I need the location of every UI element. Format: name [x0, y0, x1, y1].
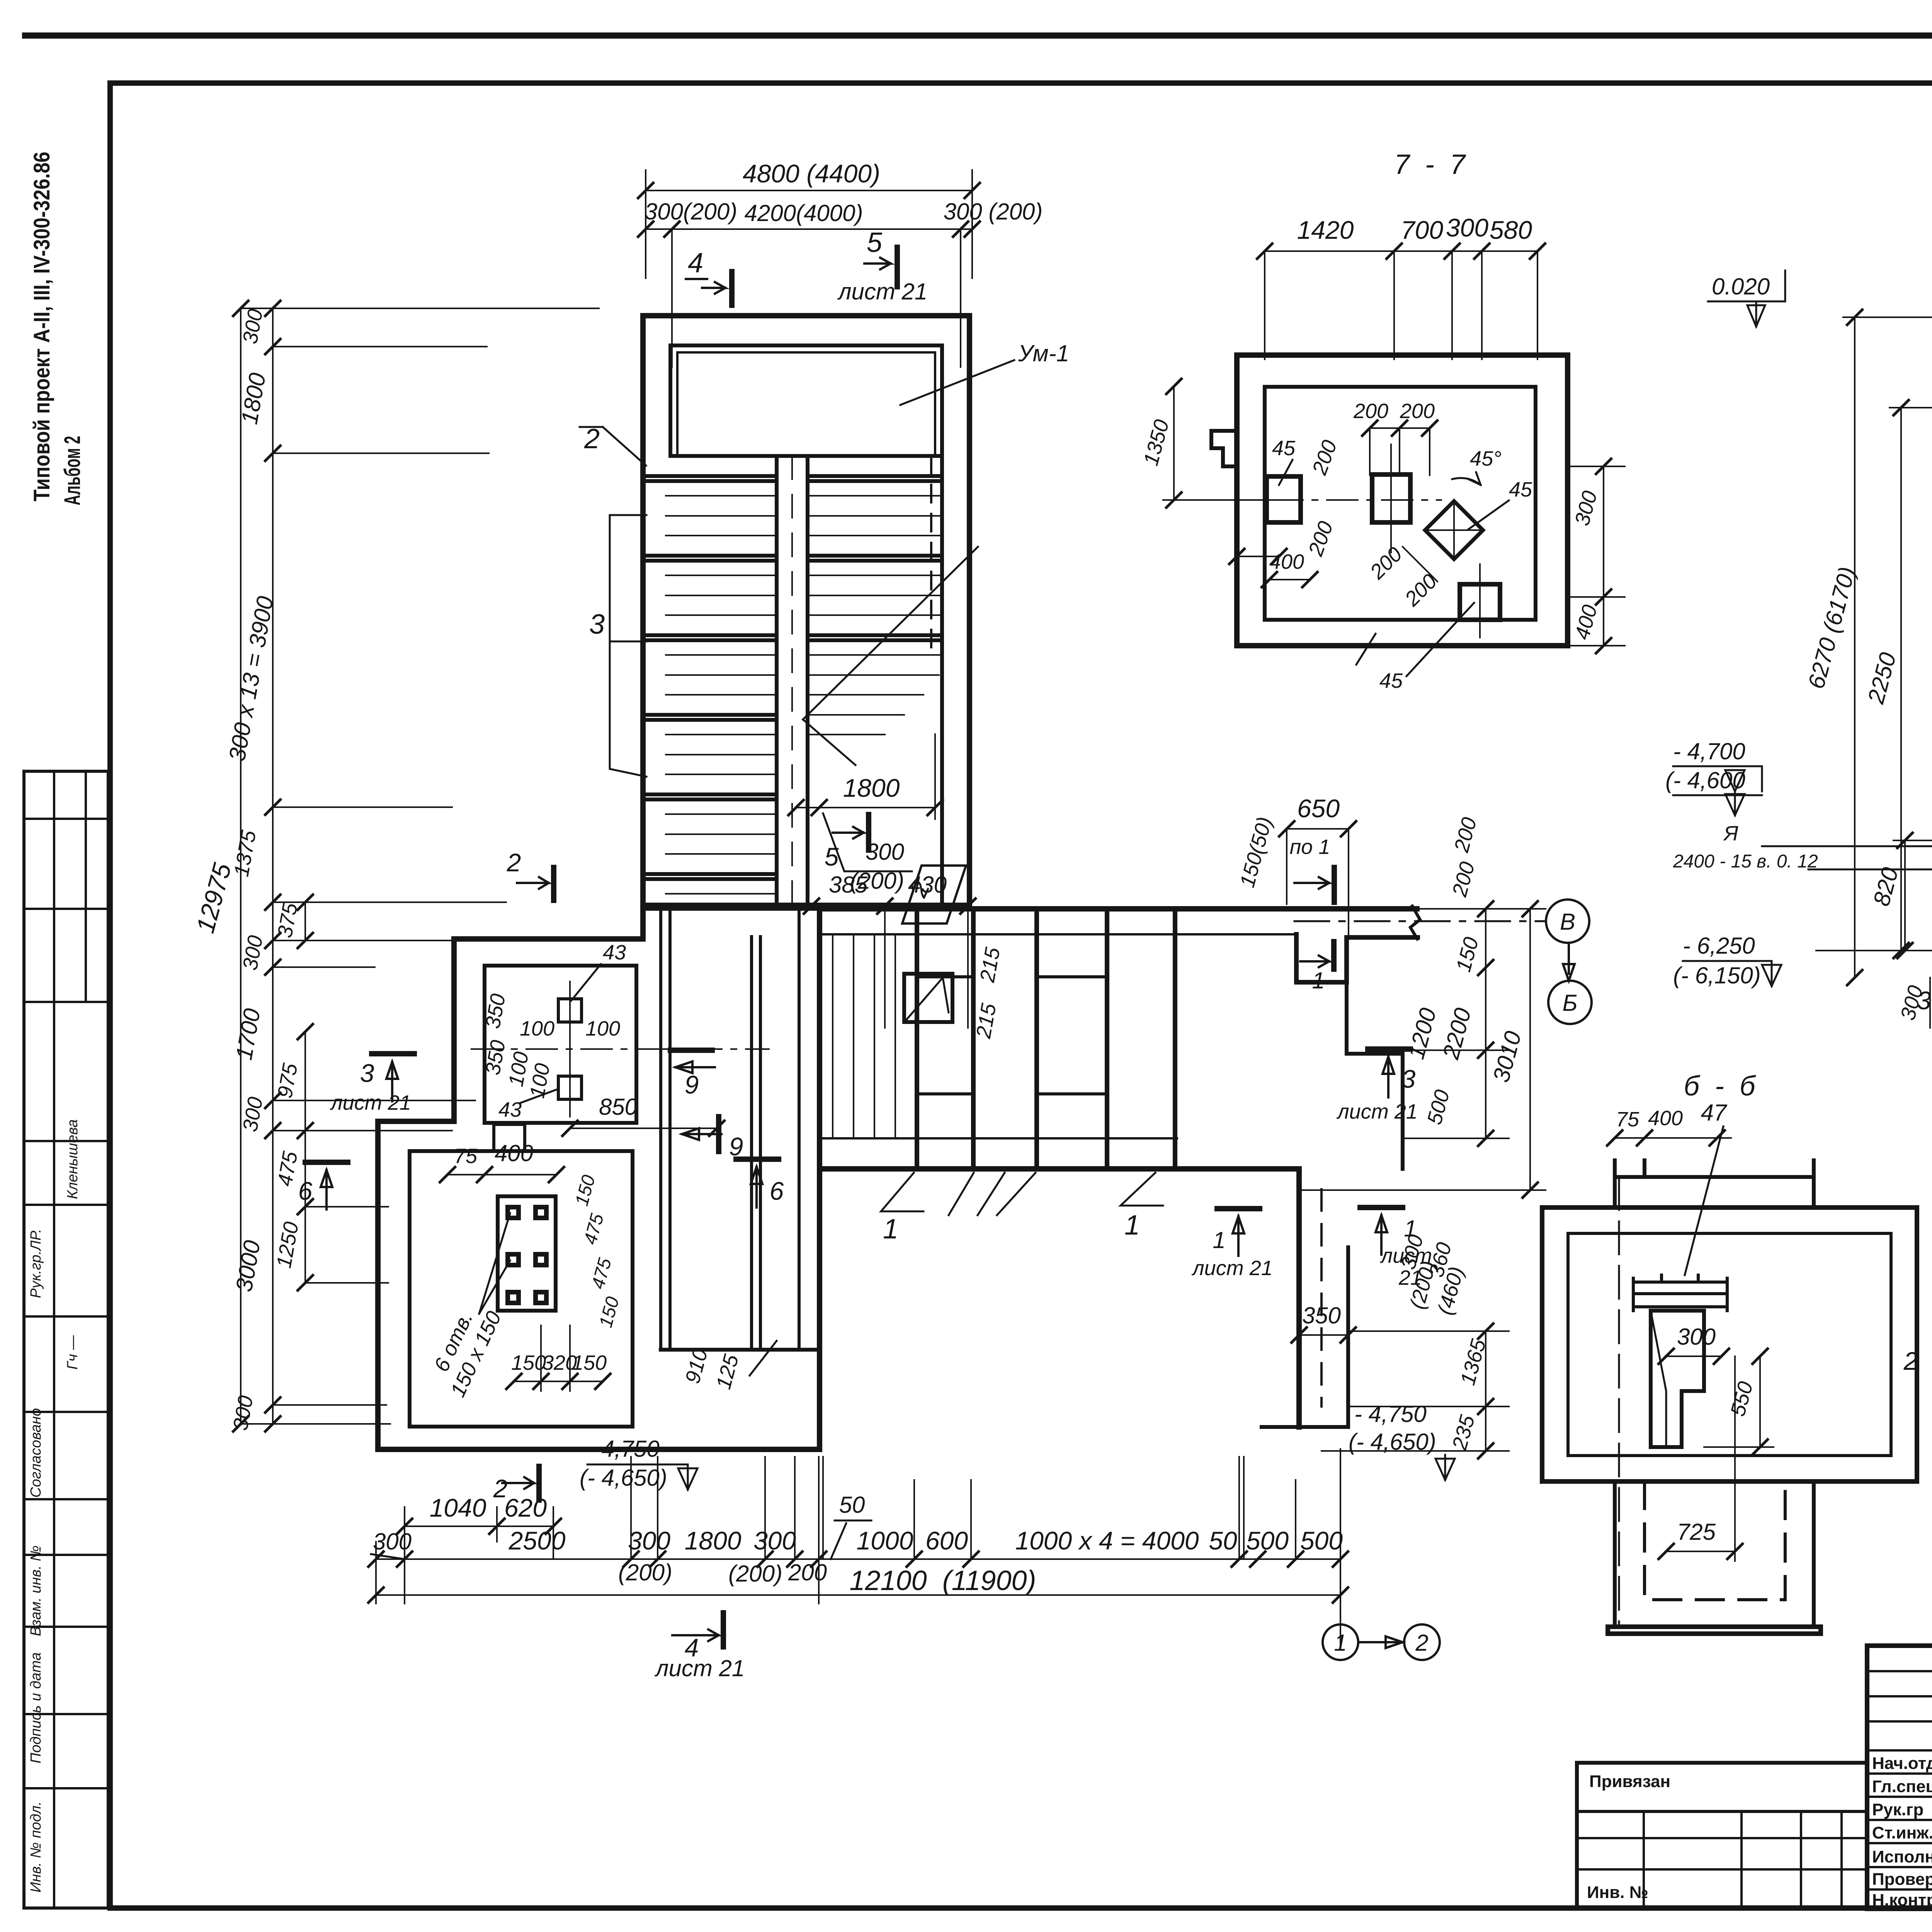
svg-text:45: 45: [1272, 437, 1296, 460]
svg-text:600: 600: [925, 1526, 968, 1555]
section 6 flag (left): [305, 1160, 348, 1165]
svg-text:Инв. № подл.: Инв. № подл.: [28, 1801, 44, 1893]
corridor top inner line: [820, 933, 1296, 935]
section 1 flag near corridor end: [1300, 956, 1329, 967]
svg-text:4200(4000): 4200(4000): [745, 200, 863, 226]
svg-text:2500: 2500: [509, 1526, 566, 1555]
svg-text:4: 4: [688, 248, 703, 279]
right flight bands: [808, 476, 942, 640]
svg-text:1: 1: [1334, 1630, 1347, 1656]
svg-text:2: 2: [1903, 1347, 1918, 1375]
svg-text:- 4,700: - 4,700: [1673, 738, 1745, 764]
svg-text:Ст.инж.: Ст.инж.: [1872, 1823, 1932, 1842]
svg-text:1000: 1000: [857, 1526, 913, 1555]
axis circle Б: [1548, 981, 1592, 1024]
svg-text:Н.контр.: Н.контр.: [1872, 1891, 1932, 1910]
svg-text:Б: Б: [1562, 990, 1577, 1016]
svg-text:3: 3: [1401, 1065, 1416, 1093]
6-6 outer box: [1542, 1207, 1917, 1481]
svg-text:6: 6: [298, 1177, 313, 1205]
svg-text:1040: 1040: [430, 1493, 486, 1522]
panel leaders 1: [881, 1173, 1036, 1215]
corridor wall west: [659, 910, 662, 1350]
svg-text:725: 725: [1677, 1519, 1716, 1545]
svg-text:Гл.спец.: Гл.спец.: [1872, 1777, 1932, 1796]
staircase seg dim line: [646, 228, 972, 230]
sheet top edge line: [25, 32, 1932, 39]
svg-text:350: 350: [1302, 1303, 1341, 1328]
axis circles 1 2: [1323, 1624, 1358, 1660]
titleblock outer: [1867, 1646, 1932, 1909]
svg-text:4800 (4400): 4800 (4400): [743, 159, 880, 188]
7-7 diamond square: [1425, 501, 1483, 559]
corridor top wall: [820, 906, 1417, 912]
svg-text:лист 21: лист 21: [837, 279, 928, 304]
6-6 inner box: [1568, 1233, 1891, 1456]
svg-text:300: 300: [1917, 986, 1932, 1015]
machine block outer wall bottom: [378, 1447, 820, 1452]
7-7 dim 400 bottom left: [1237, 556, 1279, 557]
embedded plate: [498, 1196, 556, 1311]
svg-text:лист 21: лист 21: [655, 1655, 745, 1681]
left flight treads: [666, 496, 777, 894]
signature labels: [1872, 1754, 1932, 1910]
svg-text:300 (200): 300 (200): [944, 199, 1043, 224]
svg-text:Рук.гр: Рук.гр: [1872, 1800, 1923, 1819]
svg-text:500: 500: [1246, 1526, 1289, 1555]
corridor panel joints: [915, 909, 919, 1169]
central stair wall: [775, 456, 779, 905]
svg-text:7 - 7: 7 - 7: [1394, 149, 1466, 180]
7-7 leader 45 bottom: [1356, 634, 1376, 665]
wall corner to machine block: [454, 936, 643, 942]
lower flight treads in corridor: [833, 934, 895, 1138]
svg-text:2: 2: [507, 848, 521, 877]
svg-text:150: 150: [572, 1351, 607, 1374]
shaft wall west: [750, 937, 753, 1350]
signature table rows: [1867, 1671, 1932, 1889]
svg-text:лист 21: лист 21: [1336, 1100, 1418, 1123]
left chain line: [272, 308, 274, 1424]
svg-text:650: 650: [1297, 794, 1340, 823]
7-7 embedded square 3: [1460, 584, 1500, 620]
section 4 flag bottom: [721, 1613, 726, 1647]
svg-text:9: 9: [729, 1132, 743, 1161]
section 1 flag lower right: [1360, 1205, 1403, 1210]
svg-text:лист: лист: [1380, 1244, 1432, 1267]
svg-text:Нач.отд.: Нач.отд.: [1872, 1754, 1932, 1773]
svg-text:2: 2: [1415, 1630, 1428, 1656]
svg-text:9: 9: [685, 1070, 699, 1099]
svg-text:Привязан: Привязан: [1589, 1772, 1670, 1791]
svg-text:430: 430: [908, 872, 947, 898]
door opening between rooms: [490, 1126, 528, 1149]
6-6 counterweight: [1651, 1311, 1704, 1447]
machine block outer wall left upper: [451, 939, 457, 1121]
privyazan box: [1577, 1763, 1867, 1909]
svg-text:2: 2: [584, 423, 600, 454]
landing slab Ум-1: [670, 345, 942, 456]
7-7 inner wall: [1265, 387, 1536, 620]
plate leaders 6 отв: [479, 1213, 510, 1314]
svg-text:- 4,750: - 4,750: [587, 1436, 660, 1462]
svg-text:Гч —: Гч —: [65, 1335, 81, 1370]
section 6 flag right: [736, 1156, 779, 1162]
svg-text:В: В: [1560, 909, 1575, 935]
axis circle B: [1546, 900, 1589, 943]
svg-text:200: 200: [1400, 400, 1435, 423]
svg-text:- 4,750: - 4,750: [1354, 1401, 1427, 1427]
svg-text:12100 (11900): 12100 (11900): [849, 1565, 1036, 1596]
svg-text:Взам. инв. №: Взам. инв. №: [28, 1545, 44, 1636]
svg-text:400: 400: [1648, 1107, 1683, 1130]
left flight landing bands: [643, 476, 777, 879]
right flight dashed edge: [930, 456, 932, 657]
axis centerline dashed: [1294, 920, 1546, 922]
svg-text:300: 300: [753, 1526, 796, 1555]
svg-text:300: 300: [628, 1526, 670, 1555]
svg-text:47: 47: [1701, 1100, 1728, 1126]
svg-text:Ум-1: Ум-1: [1018, 340, 1069, 366]
svg-text:(200): (200): [618, 1560, 672, 1585]
7-7 embedded square 2: [1372, 474, 1410, 522]
7-7 embedded square 1: [1267, 476, 1301, 522]
wall below stair to shaft: [643, 905, 820, 911]
bottom main dim line: [376, 1558, 1340, 1560]
shaft wall east: [798, 909, 801, 1350]
svg-text:3: 3: [360, 1059, 374, 1087]
svg-text:1800: 1800: [843, 774, 900, 802]
svg-text:5: 5: [867, 227, 883, 258]
svg-text:5: 5: [825, 842, 839, 871]
svg-text:2: 2: [493, 1474, 508, 1503]
svg-text:850: 850: [599, 1094, 638, 1120]
svg-text:50: 50: [839, 1492, 865, 1518]
svg-text:Исполн.: Исполн.: [1872, 1847, 1932, 1866]
dim 1800: [796, 807, 935, 808]
staircase top dim 4800(4400): [646, 190, 972, 191]
section 9 flag lower: [682, 1128, 721, 1140]
svg-text:3: 3: [589, 609, 605, 640]
7-7 left dim 1350: [1173, 386, 1175, 500]
svg-text:Подпись и дата: Подпись и дата: [28, 1652, 44, 1763]
right flight treads: [808, 496, 942, 735]
machine block outer wall left: [375, 1121, 381, 1449]
svg-text:б - б: б - б: [1684, 1071, 1756, 1102]
stair break diagonal: [803, 547, 978, 719]
witness verticals bottom: [376, 1449, 1340, 1646]
svg-text:75: 75: [454, 1145, 478, 1168]
svg-text:- 6,250: - 6,250: [1683, 933, 1755, 959]
svg-text:300: 300: [373, 1529, 412, 1554]
axis arrow: [1563, 943, 1575, 981]
svg-text:6: 6: [770, 1177, 784, 1205]
panel mid bands: [917, 975, 973, 978]
svg-text:Провер.: Провер.: [1872, 1870, 1932, 1889]
corridor east end crank: [1349, 935, 1418, 940]
leader Ум-1: [900, 360, 1014, 405]
svg-text:45°: 45°: [1470, 447, 1502, 470]
7-7 wall notch left: [1211, 431, 1237, 466]
shaft bottom wall: [661, 1348, 820, 1352]
svg-text:300: 300: [866, 839, 904, 865]
section 9 flag upper: [670, 1048, 712, 1053]
svg-text:200: 200: [788, 1560, 827, 1585]
7-7 centerline: [1217, 499, 1441, 501]
section 1 flag lower left: [1217, 1206, 1260, 1211]
svg-text:45: 45: [1379, 669, 1403, 692]
corridor bottom inner line: [820, 1137, 1177, 1139]
panel label 2 parallelogram: [902, 866, 966, 923]
svg-text:лист 21: лист 21: [1191, 1257, 1273, 1280]
svg-text:580: 580: [1490, 216, 1532, 244]
section 3 лист21 flag (left): [372, 1051, 414, 1056]
6-6 bracket plates: [1633, 1275, 1727, 1311]
section mark 5 (mid): [833, 827, 864, 838]
6-6 centerline dashed: [1618, 1177, 1620, 1627]
inner wall right side: [940, 456, 944, 905]
pit closure right: [817, 1350, 822, 1449]
svg-text:1: 1: [1124, 1210, 1140, 1241]
left margin stamp outline: [24, 771, 108, 1908]
svg-text:по 1: по 1: [1290, 835, 1330, 859]
svg-text:43: 43: [498, 1098, 522, 1121]
svg-text:1: 1: [1312, 968, 1325, 993]
svg-text:21: 21: [1398, 1266, 1422, 1289]
upper room inner walls: [485, 966, 636, 1123]
svg-text:1: 1: [1213, 1227, 1225, 1253]
inner chain 375/975/475/1250: [304, 902, 306, 940]
stair left wall extension: [640, 903, 646, 939]
svg-text:лист 21: лист 21: [330, 1091, 411, 1114]
svg-text:300(200): 300(200): [645, 199, 737, 224]
svg-text:1: 1: [883, 1214, 898, 1245]
7-7 outer wall: [1237, 355, 1568, 646]
extension lines from chain: [241, 308, 599, 1424]
6-6 lower box: [1615, 1481, 1814, 1627]
svg-text:400: 400: [495, 1140, 533, 1166]
svg-text:100: 100: [520, 1017, 554, 1040]
left total dim 12975: [240, 308, 241, 1424]
svg-text:(- 4,650): (- 4,650): [580, 1465, 667, 1491]
LEFT STAMP TABLE: [24, 771, 108, 1908]
6-6 top stub: [1615, 1160, 1814, 1207]
6-6 base: [1608, 1627, 1821, 1634]
svg-text:1800: 1800: [685, 1526, 742, 1555]
svg-text:100: 100: [585, 1017, 620, 1040]
svg-text:385: 385: [829, 872, 868, 898]
svg-text:Согласовано: Согласовано: [28, 1408, 44, 1498]
svg-text:200: 200: [1353, 400, 1388, 423]
7-7 right dims 300 400: [1603, 466, 1604, 646]
svg-text:Типовой проект А-II, III, IV-3: Типовой проект А-II, III, IV-300-326.86: [29, 152, 54, 502]
svg-text:0.020: 0.020: [1712, 274, 1770, 299]
svg-text:500: 500: [1300, 1526, 1343, 1555]
staircase outer wall: [643, 316, 969, 905]
lower room inner walls: [410, 1151, 633, 1427]
machine room squares 43: [558, 999, 582, 1022]
svg-text:300: 300: [1677, 1324, 1716, 1350]
corridor bottom wall: [820, 1166, 1299, 1172]
svg-text:2400 - 15 в. 0. 12: 2400 - 15 в. 0. 12: [1673, 851, 1818, 872]
svg-text:45: 45: [1509, 478, 1532, 501]
svg-text:700: 700: [1401, 216, 1443, 244]
svg-text:Рук.гр.ЛР.: Рук.гр.ЛР.: [28, 1229, 44, 1298]
svg-text:1000 х 4 = 4000: 1000 х 4 = 4000: [1015, 1526, 1199, 1555]
svg-text:(- 4,650): (- 4,650): [1349, 1429, 1436, 1455]
right dim chain lines: [1485, 909, 1486, 1138]
machine block step: [378, 1119, 454, 1124]
svg-text:300: 300: [1446, 213, 1488, 242]
svg-text:Я: Я: [1723, 822, 1738, 845]
door square with diagonal: [904, 974, 952, 1022]
svg-text:Альбом 2: Альбом 2: [60, 436, 85, 505]
svg-text:Кленышева: Кленышева: [65, 1119, 81, 1199]
pit below corridor: [1296, 1169, 1302, 1427]
svg-text:1420: 1420: [1297, 216, 1354, 244]
svg-text:(200): (200): [728, 1561, 782, 1587]
svg-text:1: 1: [1404, 1216, 1417, 1242]
svg-text:43: 43: [603, 941, 626, 964]
svg-text:50: 50: [1209, 1526, 1237, 1555]
svg-text:Инв. №: Инв. №: [1587, 1883, 1648, 1902]
svg-text:(- 6,150): (- 6,150): [1673, 963, 1761, 988]
section 3 flag right: [1368, 1046, 1410, 1052]
svg-text:75: 75: [1616, 1108, 1639, 1131]
